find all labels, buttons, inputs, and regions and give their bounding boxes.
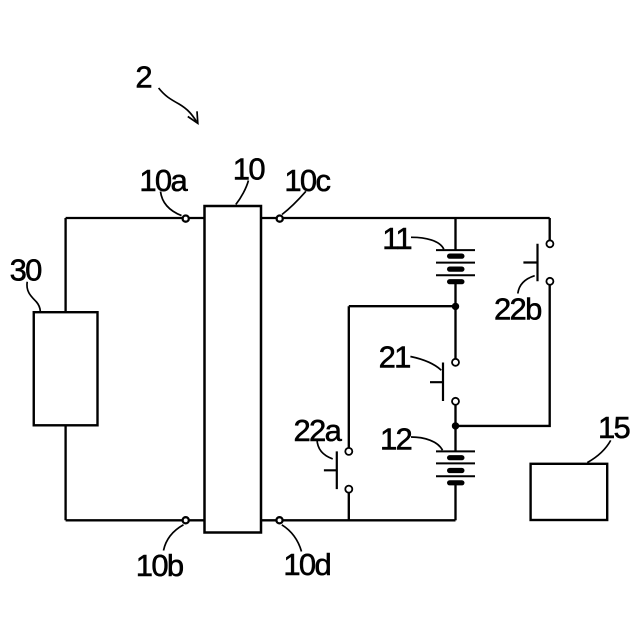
svg-text:12: 12 [380,421,412,456]
svg-text:22a: 22a [294,413,343,448]
svg-text:11: 11 [382,221,411,256]
svg-text:2: 2 [135,59,151,94]
svg-text:10b: 10b [136,548,183,583]
svg-text:22b: 22b [494,291,541,326]
svg-text:10: 10 [233,151,266,186]
svg-text:10d: 10d [283,547,330,582]
svg-text:30: 30 [10,252,43,287]
svg-text:15: 15 [598,410,630,445]
svg-text:21: 21 [379,340,411,375]
svg-text:10a: 10a [139,163,188,198]
svg-text:10c: 10c [284,163,330,198]
